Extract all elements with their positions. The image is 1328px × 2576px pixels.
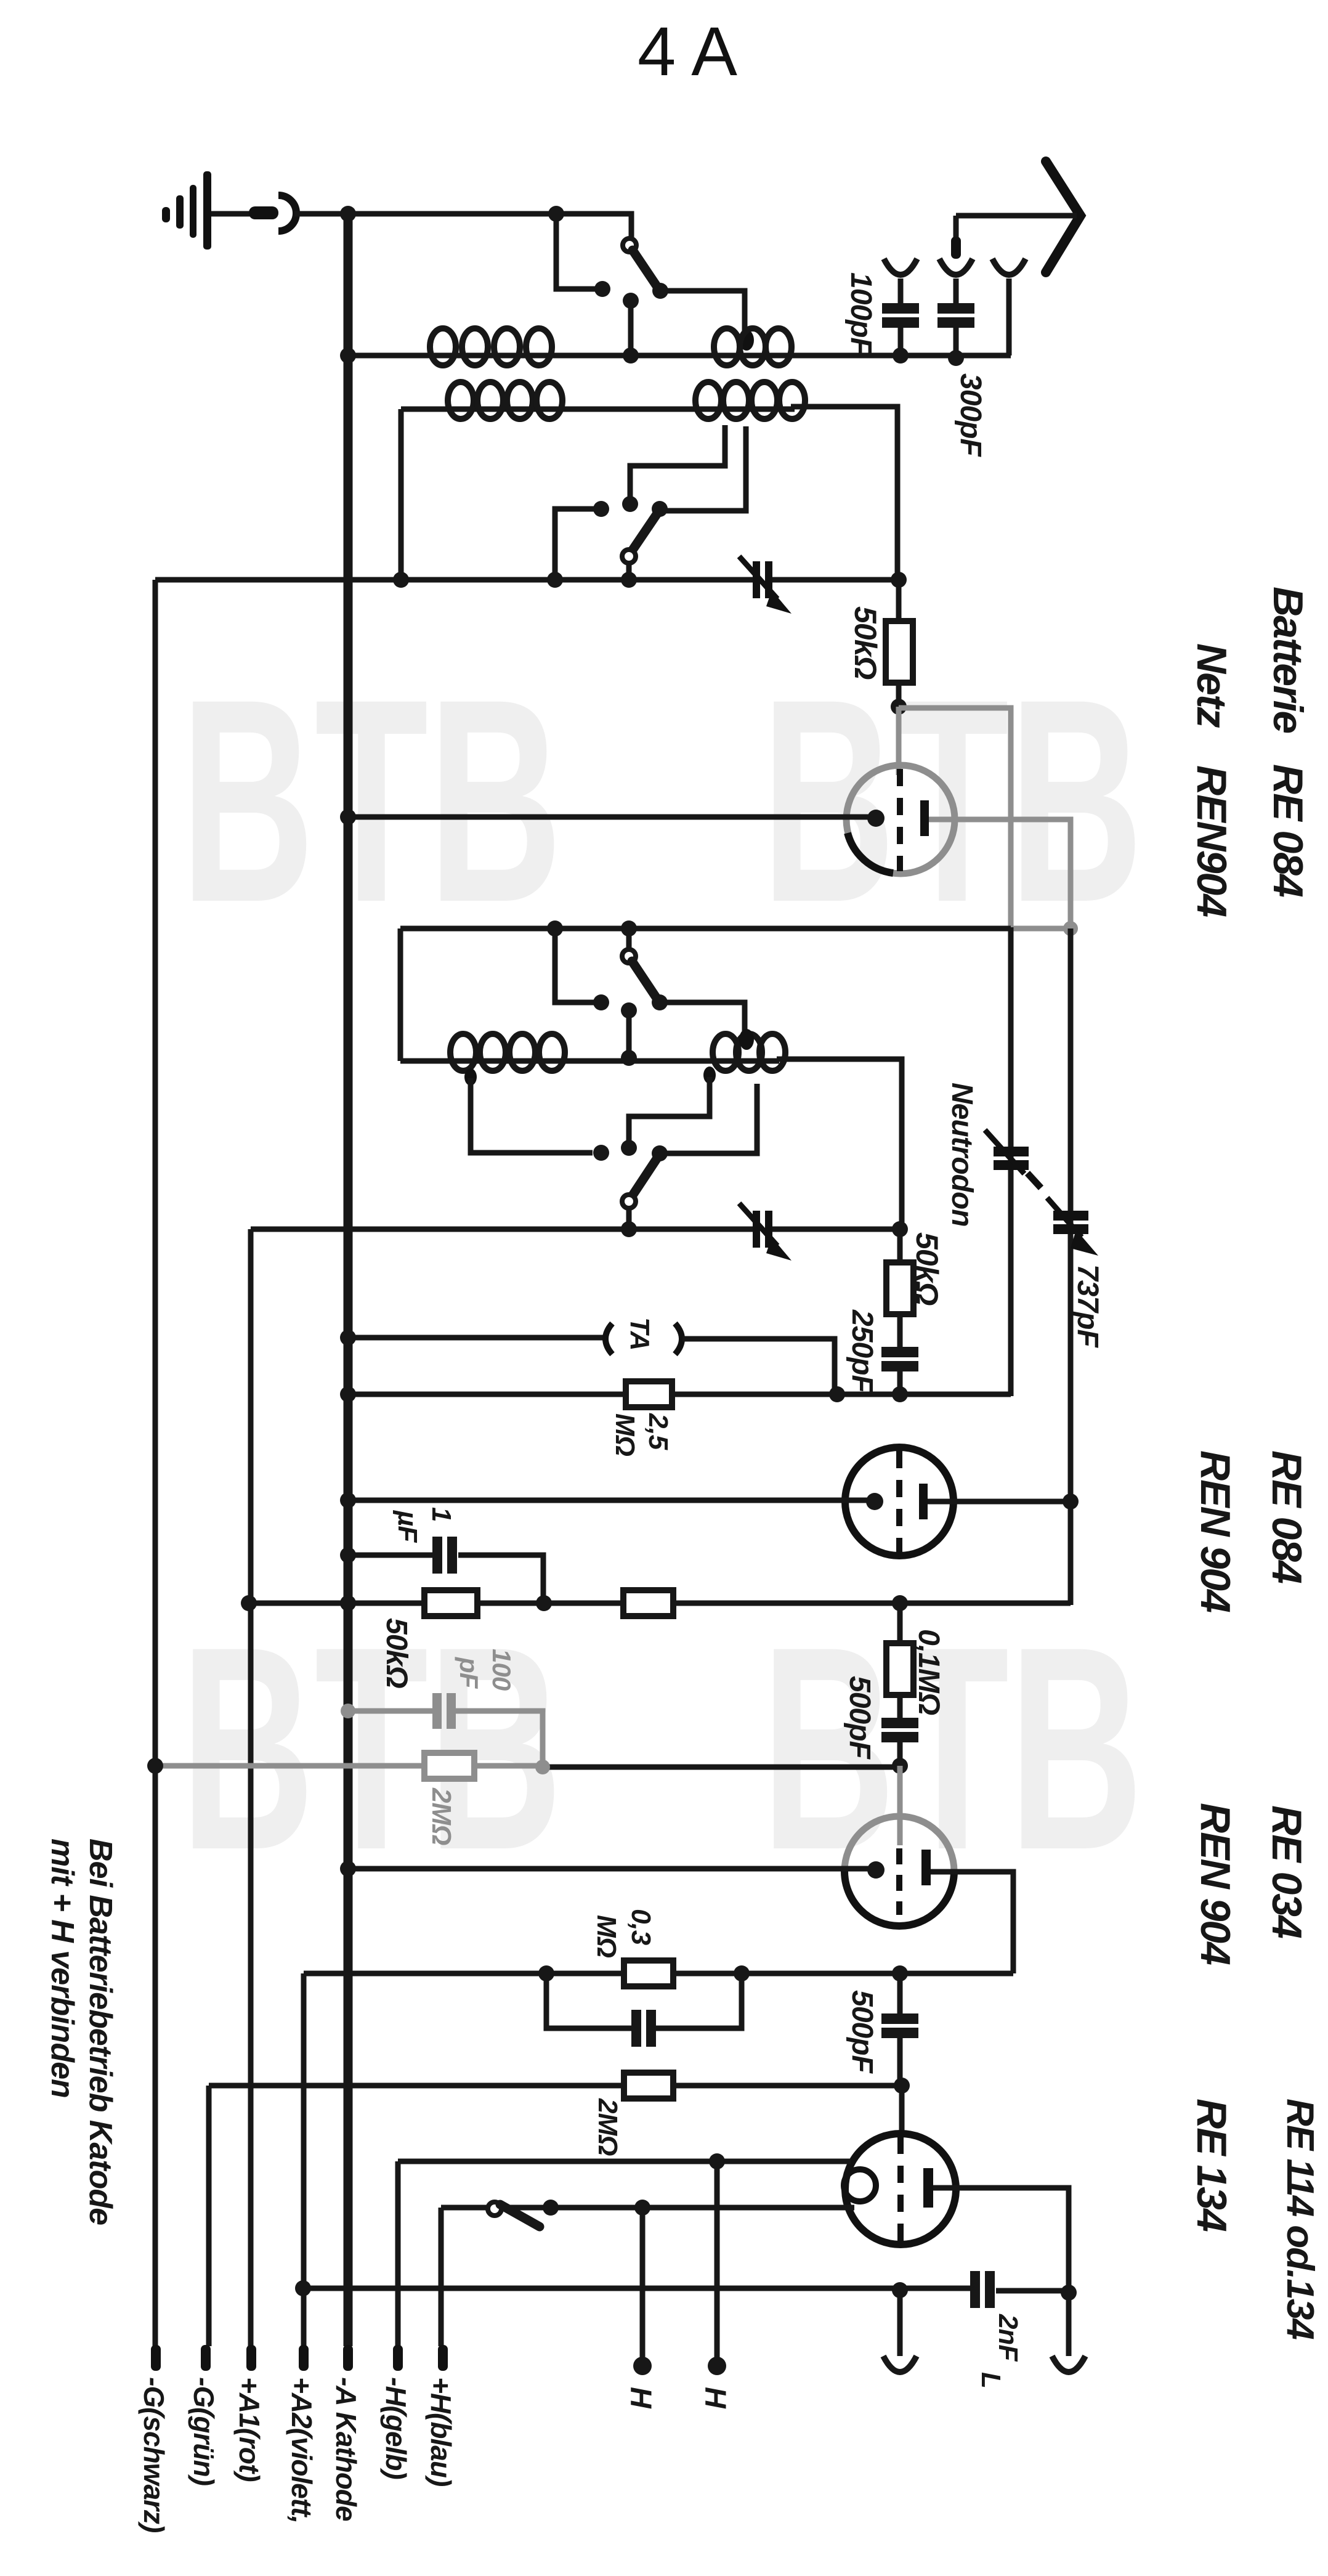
vertical rail -G gruen x339: [206, 2086, 212, 2346]
svg-text:µF: µF: [392, 1509, 423, 1543]
wire spare cup to L row: [1006, 278, 1012, 356]
coil L2: [714, 328, 740, 365]
tube V3 filament dashes: [896, 1848, 902, 1915]
tube V4 grid loop: [844, 2169, 876, 2201]
bus -A Kathode (main vertical): [344, 214, 353, 2346]
wire row y2602: [249, 1601, 1071, 1606]
junction S2 pivot: [621, 572, 637, 588]
coil L3: [448, 382, 474, 419]
tube V2 REN904 envelope: [845, 1447, 953, 1556]
svg-text:Bei Batteriebetrieb Katode: Bei Batteriebetrieb Katode: [83, 1839, 118, 2225]
coil L6: [713, 1034, 739, 1071]
svg-text:0,3: 0,3: [626, 1909, 656, 1945]
capacitor C5 250pF: [881, 1347, 918, 1357]
wire row y3508 -H: [398, 2159, 851, 2164]
wire rail x1641 dark: [1008, 927, 1014, 1396]
junction +A1 rail: [241, 1595, 257, 1611]
wire L lead right: [1066, 2293, 1072, 2356]
trimmer C1: [753, 561, 760, 598]
wire rail x1738 dark: [1068, 928, 1074, 1605]
wire gray elbow to x1641: [899, 708, 1011, 928]
svg-text:+A2(violett,: +A2(violett,: [286, 2377, 318, 2523]
svg-text:-G(grün): -G(grün): [188, 2377, 220, 2485]
switch S3: [626, 928, 632, 949]
trimmer C3: [753, 1211, 760, 1248]
junction y1507 b: [621, 920, 637, 937]
svg-text:737pF: 737pF: [1071, 1264, 1104, 1348]
tube V2 anode: [919, 1484, 928, 1519]
wire row y1995: [251, 1227, 753, 1232]
wire V2 grid to bus: [348, 1498, 874, 1503]
trimmer C4 737pF: [1053, 1211, 1088, 1221]
capacitor C7 500pF: [881, 1718, 918, 1728]
wire V3 anode elbow: [931, 1872, 1013, 1973]
junction anode rail gray: [1063, 921, 1078, 936]
node S2 contact a: [593, 501, 609, 517]
svg-text:REN904: REN904: [1188, 765, 1235, 917]
wire V3 grid to bus: [348, 1866, 875, 1872]
capacitor 300pF: [953, 278, 959, 303]
junction L right: [1061, 2285, 1077, 2301]
junction E row: [892, 1758, 908, 1774]
wire top horizontal: [348, 214, 631, 239]
junction R1 bottom: [891, 699, 907, 715]
resistor R9 2MΩ: [624, 2073, 673, 2099]
wire anode rail elbow: [1068, 1501, 1074, 1605]
terminal +A2(violett,: [299, 2345, 309, 2371]
wire V1 anode gray: [929, 819, 1071, 926]
wire row y1507: [400, 926, 1011, 932]
tube V3 grid pin: [867, 1861, 885, 1879]
tube V1 anode: [920, 800, 929, 836]
junction C6 drop: [536, 1595, 552, 1611]
wire S1-b to L1: [628, 301, 634, 356]
wire S3-a stem: [555, 930, 601, 1002]
junction C10 top: [892, 1965, 908, 1981]
wire S4 arm to L6 exit: [660, 1084, 757, 1153]
node S3 contact b: [621, 1002, 637, 1018]
node S5 contact: [543, 2200, 559, 2216]
wire S3 arm to L6: [660, 1002, 745, 1032]
svg-text:250pF: 250pF: [846, 1309, 878, 1394]
junction gray drop: [535, 1760, 550, 1774]
wire row y3716: [303, 2286, 971, 2291]
wire L3 left lead to A2 row: [399, 409, 404, 580]
tube V2 filament dashes: [896, 1451, 902, 1553]
socket cup 100pF: [884, 259, 917, 275]
node S1 contact b: [623, 293, 639, 309]
junction left rail E: [147, 1758, 163, 1774]
coil L4: [695, 382, 721, 419]
wire V2 anode to rail: [928, 1499, 1071, 1505]
wire S1 arm to L2: [660, 291, 745, 333]
wire S3-b to coil row: [626, 1010, 632, 1058]
socket cup spare: [992, 259, 1026, 275]
resistor R4 50kΩ: [424, 1590, 477, 1616]
wire left lead to L5: [398, 928, 403, 1061]
svg-text:50kΩ: 50kΩ: [380, 1618, 413, 1688]
svg-text:mit + H verbinden: mit + H verbinden: [44, 1839, 80, 2098]
tube V1 REN904 envelope: [846, 765, 955, 874]
wire L4 exit to C2 chain: [791, 407, 897, 580]
svg-text:L: L: [976, 2372, 1006, 2388]
trimmer neutrodon: [994, 1147, 1029, 1156]
wire row y3385: [209, 2083, 902, 2089]
svg-text:MΩ: MΩ: [591, 1915, 621, 1958]
resistor R5: [623, 1590, 673, 1616]
svg-text:-G(schwarz): -G(schwarz): [138, 2377, 170, 2532]
terminal -G(schwarz): [151, 2345, 161, 2371]
svg-text:BTB: BTB: [180, 1587, 562, 1910]
capacitor C9 parallel: [546, 1973, 631, 2028]
wire H lead a: [640, 2208, 646, 2360]
node S3 contact a: [593, 994, 609, 1010]
wire row y941: [155, 577, 753, 583]
svg-text:+A1(rot): +A1(rot): [233, 2377, 265, 2482]
wire S1 contact stem: [556, 214, 595, 289]
vertical left rail x252: [153, 580, 158, 2346]
wire row y3583 +H: [441, 2205, 854, 2211]
node S2 contact b: [622, 496, 638, 512]
wire row y2866 gray: [155, 1763, 543, 1769]
svg-text:Batterie: Batterie: [1265, 587, 1311, 733]
svg-text:REN 904: REN 904: [1192, 1450, 1239, 1612]
svg-text:+H(blau): +H(blau): [425, 2377, 457, 2486]
svg-text:RE 084: RE 084: [1263, 1450, 1310, 1583]
ground: [162, 207, 170, 222]
svg-text:H: H: [698, 2387, 731, 2409]
resistor R3 2,5MΩ: [626, 1381, 672, 1407]
wire ground to plug: [211, 211, 250, 217]
capacitor C6 1µF: [348, 1553, 434, 1558]
wire H lead b: [715, 2161, 720, 2360]
coil L1: [430, 328, 456, 365]
junction anode rail: [1063, 1493, 1079, 1509]
resistor R8 0,3MΩ: [624, 1960, 673, 1986]
terminal +A1(rot): [246, 2345, 256, 2371]
svg-text:50kΩ: 50kΩ: [910, 1232, 944, 1305]
wire V1 grid to bus: [348, 815, 875, 820]
svg-text:pF: pF: [455, 1657, 484, 1689]
resistor R1 50kΩ: [896, 580, 902, 622]
pickup TA: [605, 1323, 612, 1354]
junction L3 lead: [393, 572, 409, 588]
svg-text:300pF: 300pF: [954, 373, 987, 457]
junction H drop b: [709, 2153, 725, 2169]
terminal H b: [708, 2357, 726, 2375]
junction S2 stem left: [547, 572, 563, 588]
wire antenna lead: [956, 213, 1077, 219]
svg-text:RE 134: RE 134: [1188, 2099, 1235, 2232]
switch S1: [623, 238, 636, 252]
tube V4 RE134 envelope: [845, 2134, 956, 2245]
node S1 contact a: [594, 281, 610, 297]
coil L5: [450, 1034, 476, 1071]
junction RC left: [538, 1965, 554, 1981]
socket cup 300pF: [939, 259, 973, 275]
antenna: [1046, 161, 1080, 272]
resistor R7 2MΩ gray: [424, 1753, 474, 1779]
vertical rail +H blau x716: [439, 2208, 444, 2346]
wire secondary row y664: [401, 407, 795, 412]
svg-text:500pF: 500pF: [843, 1676, 876, 1760]
wire L4 tap 1: [630, 425, 725, 500]
wire V4 grid cap: [899, 2086, 905, 2135]
wire V3 grid cap gray: [897, 1766, 903, 1845]
wire L6 tap: [703, 1067, 716, 1084]
junction R6 top: [892, 1595, 908, 1611]
switch S5: [488, 2202, 501, 2216]
junction RC right: [734, 1965, 750, 1981]
wire S2-a to A2 row: [555, 509, 601, 579]
wire grid row y577: [348, 353, 1011, 359]
junction V4 grid chain: [894, 2078, 910, 2094]
socket L left: [883, 2356, 917, 2372]
wire plug to bus: [294, 211, 345, 217]
resistor R2 50kΩ: [897, 1229, 903, 1263]
svg-text:RE 114 od.134: RE 114 od.134: [1279, 2099, 1321, 2339]
svg-text:MΩ: MΩ: [610, 1413, 640, 1457]
svg-text:4 A: 4 A: [638, 13, 737, 90]
svg-text:2,5: 2,5: [643, 1413, 673, 1450]
junction y1507 a: [547, 920, 563, 937]
wire TA right: [682, 1339, 835, 1391]
tube V2 grid pin: [866, 1493, 883, 1510]
terminal -A Kathode: [343, 2345, 353, 2371]
wire V4 anode: [933, 2188, 1069, 2293]
tube V4 anode: [923, 2168, 933, 2208]
plug P1: [249, 206, 278, 219]
vertical rail +A2 x493: [301, 1973, 307, 2346]
svg-text:500pF: 500pF: [846, 1990, 878, 2074]
tube V1 grid pin: [867, 810, 885, 827]
svg-text:RE 034: RE 034: [1263, 1805, 1310, 1938]
svg-text:1: 1: [426, 1507, 456, 1521]
junction C2 top: [891, 572, 907, 588]
junction +A2 tap: [295, 2280, 311, 2296]
junction L left: [892, 2282, 908, 2298]
wire L6 exit to R2 chain: [777, 1059, 902, 1228]
svg-text:TA: TA: [625, 1317, 655, 1350]
capacitor C10 500pF: [897, 1973, 903, 2013]
svg-text:REN 904: REN 904: [1192, 1803, 1239, 1965]
svg-text:2MΩ: 2MΩ: [426, 1787, 456, 1845]
svg-text:Neutrodon: Neutrodon: [945, 1083, 978, 1227]
wire L lead left: [897, 2290, 903, 2356]
vertical rail +A1 x407: [248, 1229, 254, 2346]
capacitor 100pF antenna: [898, 278, 904, 303]
svg-text:50kΩ: 50kΩ: [848, 606, 883, 679]
wire row y2263: [348, 1392, 1011, 1397]
svg-text:-A Kathode: -A Kathode: [330, 2377, 362, 2521]
svg-text:2nF: 2nF: [993, 2314, 1023, 2362]
svg-text:BTB: BTB: [180, 639, 562, 962]
junction top-switch stem: [548, 206, 564, 222]
vertical rail -H gelb x646: [395, 2161, 401, 2346]
junction R2 top: [892, 1221, 908, 1237]
terminal -H(gelb): [393, 2345, 403, 2371]
junction bus D: [340, 1595, 356, 1611]
svg-text:100pF: 100pF: [844, 272, 877, 356]
node S4 contact a: [593, 1145, 609, 1161]
svg-text:Netz: Netz: [1188, 643, 1235, 728]
svg-text:RE 084: RE 084: [1265, 764, 1311, 897]
terminal +H(blau): [438, 2345, 448, 2371]
svg-text:H: H: [624, 2387, 657, 2409]
junction bus top: [340, 206, 356, 222]
junction S4 stem: [621, 1221, 637, 1237]
svg-text:-H(gelb): -H(gelb): [380, 2377, 412, 2479]
resistor R6 0,1MΩ: [897, 1603, 903, 1643]
socket L right: [1052, 2356, 1085, 2372]
svg-text:100: 100: [487, 1649, 516, 1691]
junction H drop a: [634, 2200, 650, 2216]
wire row y3203: [304, 1971, 1013, 1977]
node S4 contact b: [621, 1140, 637, 1156]
wire L4 tap 2: [665, 426, 746, 511]
terminal H a: [633, 2357, 652, 2375]
wire coil row y1722: [400, 1058, 779, 1064]
terminal -G(grün): [201, 2345, 211, 2371]
capacitor C8 100pF gray: [348, 1709, 432, 1714]
capacitor C11 2nF: [970, 2271, 980, 2308]
junction TA drop: [829, 1386, 845, 1402]
tube V4 filament dashes: [897, 2137, 904, 2241]
switch S2: [652, 501, 668, 517]
tube V3 RE034 envelope: [844, 1816, 954, 1871]
tube V1 filament dashes: [897, 769, 903, 871]
plug P2 antenna: [953, 216, 959, 238]
junction C5 bottom: [892, 1386, 908, 1402]
svg-text:2MΩ: 2MΩ: [593, 2098, 623, 2156]
svg-text:0,1MΩ: 0,1MΩ: [912, 1629, 945, 1715]
tube V3 anode: [921, 1850, 931, 1885]
switch S4: [652, 1145, 668, 1161]
wire gray grid cap V1: [896, 707, 902, 775]
wire TA left: [348, 1335, 604, 1341]
wire L5 tap: [464, 1068, 477, 1086]
